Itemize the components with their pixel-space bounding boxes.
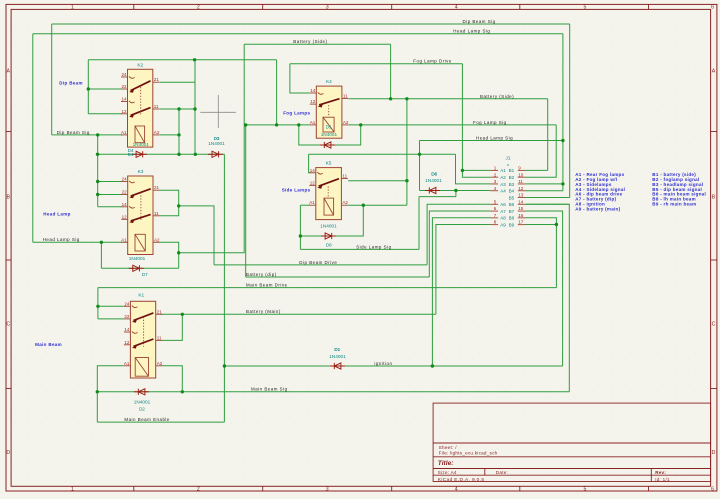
wire K3 pin 14 wire	[98, 206, 122, 208]
wire K2 contact common tie run	[88, 59, 276, 61]
junction D3 anode node	[194, 153, 197, 156]
junction K3 output node	[177, 204, 180, 207]
junction K2 tie node	[193, 58, 196, 61]
wire battery dip rise to J1 A7	[429, 211, 490, 277]
svg-text:21: 21	[154, 185, 160, 190]
relay K4 pin 12 and switch arm	[310, 103, 317, 105]
wire main beam enable left drop	[96, 392, 98, 422]
junction K2 pin 22 node	[87, 87, 90, 90]
wire K5 A1 drop	[299, 205, 301, 249]
svg-text:A1: A1	[500, 168, 506, 173]
svg-text:1N4001: 1N4001	[321, 132, 338, 137]
svg-text:D: D	[712, 450, 716, 456]
wire Side Lamp Sig run	[300, 248, 419, 250]
svg-text:2: 2	[197, 5, 200, 11]
svg-text:C: C	[6, 322, 10, 328]
wire Dip Beam Drive run	[214, 264, 427, 266]
svg-text:File: lights_ecu.kicad_sch: File: lights_ecu.kicad_sch	[439, 451, 498, 456]
relay K3 body	[128, 176, 153, 255]
svg-text:D1: D1	[334, 347, 340, 352]
junction diode line left node	[96, 153, 99, 156]
wire ignition run with D1	[224, 365, 562, 367]
svg-text:11: 11	[342, 174, 347, 179]
wire K1 pins 21-11 tie	[162, 314, 182, 340]
svg-text:A2: A2	[343, 120, 349, 125]
svg-text:D6: D6	[431, 171, 437, 176]
svg-text:12: 12	[518, 186, 524, 191]
connector J1 pin row A5 B5	[509, 193, 526, 201]
junction K1 A1 node	[96, 390, 99, 393]
svg-text:17: 17	[518, 220, 524, 225]
wire ignition rise to J1 A8	[432, 218, 490, 366]
relay K2 body	[128, 69, 153, 147]
wire K2 A2 flyback drop	[178, 109, 180, 154]
svg-text:1: 1	[71, 487, 74, 493]
wire J1 B5 pin 13 wire	[526, 197, 570, 199]
relay K1 pin A1	[124, 365, 130, 367]
junction A4 sidelamp node	[454, 189, 457, 192]
svg-text:B1: B1	[509, 168, 515, 173]
svg-text:11: 11	[343, 94, 348, 99]
svg-text:12: 12	[310, 99, 316, 104]
relay K2 pin 22 and switch arm	[121, 88, 128, 90]
wire riser K5 A2 to battery side line	[406, 99, 408, 205]
wire K5 A2 wire	[348, 204, 407, 206]
wire sidelamp link line	[309, 153, 456, 155]
connector J1 pin row A4 B4	[490, 186, 525, 194]
wire battery main rise to J1 A9	[436, 225, 491, 315]
wire J1 B1 pin 9 wire	[526, 169, 548, 171]
relay K1 pin 11	[156, 339, 163, 341]
svg-text:A3: A3	[500, 182, 506, 187]
junction K3 pin 22 node	[96, 193, 99, 196]
relay K5 pin A2	[341, 204, 348, 206]
svg-text:B6: B6	[509, 202, 515, 207]
svg-text:K5: K5	[326, 160, 332, 166]
border column numbers top	[71, 5, 714, 11]
svg-text:Dip Beam Drive: Dip Beam Drive	[299, 260, 337, 265]
relay K5 coil	[324, 198, 334, 215]
wire K2 pin 12 wire	[88, 113, 122, 115]
svg-text:24: 24	[121, 72, 127, 77]
svg-text:Side Lamps: Side Lamps	[282, 188, 311, 193]
relay K5 body	[316, 168, 342, 220]
wire K2 pin 21 wrap up	[160, 60, 196, 82]
svg-text:Battery (Main): Battery (Main)	[246, 309, 281, 314]
wire K3 A1 drop to D7	[100, 242, 102, 268]
svg-text:Head Lamp Sig: Head Lamp Sig	[453, 29, 490, 34]
relay K3 pin A1	[121, 241, 128, 243]
junction head lamp sig node	[561, 139, 564, 142]
svg-text:1N4001: 1N4001	[134, 400, 151, 405]
svg-text:12: 12	[124, 340, 130, 345]
junction A1 fog node	[461, 169, 464, 172]
svg-text:A1: A1	[121, 130, 127, 135]
svg-text:A2: A2	[154, 237, 160, 242]
relay K1 pin 14	[124, 331, 138, 333]
wire head lamp sig drop to D6	[419, 141, 421, 191]
wire D5 flyback loop	[299, 125, 361, 145]
border row letters right	[712, 68, 716, 456]
svg-text:D3: D3	[214, 136, 220, 141]
svg-text:1N4001: 1N4001	[208, 141, 225, 146]
junction B9 node	[555, 223, 558, 226]
svg-text:2: 2	[197, 487, 200, 493]
svg-text:21: 21	[154, 77, 160, 82]
svg-text:14: 14	[121, 97, 127, 102]
wire K1 left feed drop	[97, 288, 99, 319]
wire Head Lamp Sig top run	[33, 33, 563, 35]
wire Battery (dip) run	[246, 276, 430, 278]
wire K3 pins 21-11 tie	[160, 190, 179, 216]
svg-text:Main Beam: Main Beam	[35, 342, 62, 347]
svg-text:24: 24	[122, 177, 128, 182]
relay K2 actuator link (dashed)	[140, 87, 142, 116]
relay K2 pin 14	[121, 101, 135, 103]
svg-text:21: 21	[157, 309, 163, 314]
svg-text:1N4001: 1N4001	[329, 354, 346, 359]
wire Head Lamp Sig to K3 A1	[33, 241, 122, 243]
svg-text:13: 13	[518, 193, 524, 198]
svg-text:Battery (Side): Battery (Side)	[480, 94, 514, 99]
wire K2 right tie drop to diode line	[194, 60, 196, 155]
relay K4 pin A2	[342, 124, 349, 126]
relay K1 pin 12 and switch arm	[124, 344, 130, 346]
relay K5 actuator link (dashed)	[327, 186, 329, 197]
relay K4 coil	[323, 117, 334, 132]
wire Battery (Main) run from K1 pin 21	[162, 313, 436, 315]
svg-text:14: 14	[518, 199, 524, 204]
wire K2 left tie drop	[87, 60, 89, 114]
diode D7 1N4001	[129, 265, 144, 271]
junction K4 A1 tie node	[275, 123, 278, 126]
wire Dip Beam Sig left drop	[51, 24, 53, 135]
note connector legend left column	[575, 172, 625, 211]
svg-text:22: 22	[122, 190, 128, 195]
graphic crosshair marker	[200, 95, 236, 128]
svg-text:1N4001: 1N4001	[320, 224, 337, 229]
relay K5 pin 11	[341, 178, 348, 180]
svg-text:4: 4	[455, 487, 458, 493]
svg-text:14: 14	[310, 168, 316, 173]
diode D3 1N4001	[208, 151, 223, 157]
wire K2 pin 11 wire	[160, 108, 196, 110]
wire head lamp sig drop to J1 B3 B4	[562, 34, 564, 191]
svg-text:A6: A6	[500, 202, 506, 207]
wire K5 A1 wire	[300, 204, 309, 206]
wire Battery (Side) upper run	[244, 43, 390, 45]
svg-text:1N4001: 1N4001	[425, 178, 442, 183]
junction K2 A2 node	[177, 133, 180, 136]
junction K1 A2 node	[181, 390, 184, 393]
connector J1 pin row A8 B8	[490, 213, 525, 221]
wire battery side wrap down to J1 pin 9	[547, 99, 549, 171]
wire Main Beam Enable run	[97, 421, 224, 423]
border row letters left	[6, 68, 10, 456]
relay K2 pin 12 and switch arm	[121, 113, 128, 115]
svg-text:A2: A2	[342, 200, 348, 205]
relay K2 pin 11	[153, 108, 160, 110]
connector J1 pin row A6 B6	[490, 199, 525, 207]
svg-text:A: A	[712, 68, 716, 74]
wire Head Lamp Sig left drop	[32, 34, 34, 243]
relay K1 pin A2	[156, 365, 163, 367]
svg-text:12: 12	[310, 180, 316, 185]
connector J1 pin row A9 B9	[490, 220, 525, 228]
svg-text:A9: A9	[500, 222, 506, 227]
junction D5 right node	[359, 123, 362, 126]
title block frame	[433, 403, 710, 481]
wire K3 pin 22 wire	[98, 194, 122, 196]
svg-text:A1: A1	[121, 237, 127, 242]
svg-text:10: 10	[518, 172, 524, 177]
relay K1 body	[130, 301, 155, 378]
wire battery dip link to K2 tie line	[276, 60, 278, 125]
relay K4 pin 14	[310, 92, 324, 94]
svg-text:C: C	[712, 322, 716, 328]
wire left column drop K2 A1 to K3 pins	[97, 135, 99, 207]
relay K2 pin 21	[153, 81, 160, 83]
svg-text:D: D	[6, 450, 10, 456]
relay K3 pin 12 and switch arm	[121, 218, 128, 220]
wire D8 flyback loop	[300, 205, 363, 236]
junction K2 A1 node	[96, 133, 99, 136]
svg-text:Dip Beam: Dip Beam	[59, 81, 83, 86]
wire J1 A1 pin 1 wire	[462, 169, 490, 171]
svg-text:Sheet: /: Sheet: /	[439, 445, 458, 450]
wire battery dip riser to K4 A1 line	[245, 125, 247, 277]
svg-text:Fog Lamp Sig: Fog Lamp Sig	[473, 120, 507, 125]
relay K4 body	[316, 86, 342, 138]
svg-text:B9: B9	[509, 222, 515, 227]
svg-text:5: 5	[584, 5, 587, 11]
svg-text:J1: J1	[506, 155, 511, 160]
relay K1 pin 24	[124, 306, 138, 308]
border column numbers bottom	[71, 487, 714, 493]
svg-text:K1: K1	[138, 292, 144, 298]
svg-text:Side Lamp Sig: Side Lamp Sig	[356, 244, 391, 249]
svg-text:16: 16	[518, 213, 524, 218]
relay K3 actuator link (dashed)	[140, 193, 142, 222]
relay K5 pin A1	[309, 204, 316, 206]
diode D2 1N4001	[134, 389, 149, 395]
wire fog lamp drive drop to K4 pin 14	[290, 64, 310, 93]
junction B3 node	[561, 182, 564, 185]
wire A4 node drop	[455, 191, 457, 197]
junction K3 A1 node	[100, 241, 103, 244]
junction D8 left node	[299, 234, 302, 237]
svg-text:A: A	[6, 68, 10, 74]
svg-text:1N4001: 1N4001	[129, 256, 146, 261]
svg-text:B: B	[6, 195, 10, 201]
svg-text:A2: A2	[154, 130, 160, 135]
connector J1 pin row A1 B1	[490, 166, 525, 174]
wire drop to J1 A3 pin 3	[456, 154, 491, 184]
junction battery side node	[389, 97, 392, 100]
svg-text:B5: B5	[509, 195, 515, 200]
wire K5 pin 11 wire	[348, 180, 407, 182]
wire J1 B9 pin 17 wire	[526, 224, 557, 226]
relay K2 pin 24	[121, 76, 135, 78]
svg-text:B9 - rh main beam: B9 - rh main beam	[652, 201, 696, 206]
svg-text:1N4001: 1N4001	[133, 142, 150, 147]
wire K4 A1 wire	[246, 124, 310, 126]
connector J1 pin row A7 B7	[490, 206, 525, 214]
svg-text:Main Beam Sig: Main Beam Sig	[251, 387, 288, 392]
svg-text:A1: A1	[310, 120, 316, 125]
wire fog drive drop to J1 A1 A2	[462, 64, 490, 178]
junction K3 pin 24 node	[96, 180, 99, 183]
svg-text:B3: B3	[509, 182, 515, 187]
svg-text:15: 15	[518, 206, 524, 211]
relay K1 coil	[135, 358, 148, 377]
svg-text:B7: B7	[509, 209, 515, 214]
svg-text:1: 1	[71, 5, 74, 11]
svg-text:14: 14	[310, 88, 316, 93]
junction ignition node	[223, 364, 226, 367]
wire K1 A1 wire and drop	[97, 366, 124, 392]
relay K1 pin 21	[156, 313, 163, 315]
wire J1 B6 pin 14 wire	[526, 203, 570, 205]
wire drop to K5 pin 14	[309, 154, 311, 173]
wire K3 A2 wire and drop	[160, 242, 179, 268]
junction K3 A2 node	[177, 251, 180, 254]
svg-text:Dip Beam Sig: Dip Beam Sig	[463, 19, 496, 24]
wire K1 pin 24 wire	[98, 305, 124, 307]
wire Dip Beam Sig top run	[52, 23, 570, 25]
connector J1 footprint dash	[507, 164, 509, 166]
svg-text:3: 3	[326, 5, 329, 11]
connector J1 pin row A3 B3	[490, 179, 525, 187]
wire Main Beam Sig run with D2	[97, 391, 569, 393]
relay K3 pin A2	[153, 241, 160, 243]
svg-text:A2: A2	[157, 361, 163, 366]
svg-text:Fog Lamps: Fog Lamps	[283, 110, 310, 115]
wire Fog Lamp Sig run from K4 A2	[349, 124, 557, 126]
svg-text:12: 12	[122, 214, 128, 219]
wire Battery (Side) drop to K4 pin 11 line	[390, 44, 392, 99]
svg-text:KiCad E.D.A. 9.0.5: KiCad E.D.A. 9.0.5	[438, 477, 485, 483]
diode D8 1N4001	[321, 233, 336, 239]
wire J1 B4 pin 12 wire	[526, 190, 563, 192]
svg-text:Title:: Title:	[438, 460, 454, 467]
svg-text:4: 4	[455, 5, 458, 11]
svg-text:D4: D4	[128, 152, 134, 157]
wire Dip Beam Sig to K2 A1	[52, 134, 122, 136]
svg-text:11: 11	[154, 211, 159, 216]
junction K1 pin 21 node	[181, 313, 184, 316]
note connector legend right column	[652, 172, 706, 206]
svg-text:6: 6	[711, 487, 714, 493]
relay K2 pin A2	[153, 134, 160, 136]
svg-text:A1: A1	[124, 361, 130, 366]
svg-text:K3: K3	[138, 169, 144, 175]
diode D1 1N4001	[330, 363, 345, 369]
junction K5 A2 node	[362, 204, 365, 207]
wire K2 pin 22 wire	[88, 88, 122, 90]
svg-text:B4: B4	[509, 189, 515, 194]
wire fog lamp sig wrap to J1 B2 pin 10	[526, 125, 557, 177]
relay K5 pin 14	[309, 172, 323, 174]
svg-text:6: 6	[711, 5, 714, 11]
junction K5 riser top node	[405, 97, 408, 100]
wire K3 pin 24 wire	[98, 181, 122, 183]
svg-text:Battery (dip): Battery (dip)	[246, 272, 277, 277]
junction D4 output node	[177, 153, 180, 156]
svg-text:Battery (Side): Battery (Side)	[293, 39, 327, 44]
svg-text:Main Beam Enable: Main Beam Enable	[124, 417, 170, 422]
relay K3 pin 24	[121, 181, 135, 183]
svg-text:12: 12	[121, 109, 127, 114]
wire D6 line to J1 A4 pin 4	[420, 190, 491, 192]
junction battery dip node	[244, 123, 247, 126]
junction D5 left node	[297, 123, 300, 126]
relay K3 pin 22 and switch arm	[121, 194, 128, 196]
junction K5 pin 11 node	[405, 179, 408, 182]
svg-text:Main Beam Drive: Main Beam Drive	[246, 283, 288, 288]
diode D4 1N4001	[132, 151, 147, 157]
svg-text:14: 14	[122, 202, 128, 207]
wire main beam signal wrap to J1 B6 pin 14	[526, 204, 570, 392]
junction K2 pin 11 left node	[177, 107, 180, 110]
svg-text:11: 11	[518, 179, 523, 184]
svg-text:24: 24	[124, 301, 130, 306]
svg-text:ignition: ignition	[374, 361, 392, 366]
svg-text:14: 14	[124, 327, 130, 332]
relay K4 pin A1	[310, 124, 317, 126]
relay K2 pin A1	[121, 134, 128, 136]
wire K3 output branch to dip beam drive	[179, 206, 214, 265]
relay K2 coil	[135, 126, 145, 143]
wire dip beam sig drop to J1 B5 pin 13	[569, 24, 571, 198]
junction A8 ignition node	[431, 364, 434, 367]
wire K2 A2 wire	[160, 134, 180, 136]
svg-text:A1: A1	[309, 200, 315, 205]
wire J1 B8 pin 16 wrap	[526, 218, 557, 288]
wire side lamp sig riser	[418, 197, 420, 250]
wire ignition wrap up to J1 B7 pin 15	[526, 211, 563, 366]
svg-text:K2: K2	[137, 62, 143, 68]
svg-text:Head Lamp: Head Lamp	[43, 211, 70, 216]
diode D6 1N4001	[425, 187, 440, 193]
relay K4 pin 11	[342, 98, 349, 100]
wire Head Lamp Sig mid run	[420, 140, 563, 142]
wire side lamp sig upper link	[419, 196, 456, 198]
svg-text:A2: A2	[500, 175, 506, 180]
svg-text:D7: D7	[142, 272, 148, 277]
svg-text:22: 22	[121, 84, 127, 89]
svg-text:Fog Lamp Drive: Fog Lamp Drive	[413, 59, 452, 64]
svg-text:B2: B2	[509, 175, 515, 180]
svg-text:3: 3	[326, 487, 329, 493]
svg-text:Head Lamp Sig: Head Lamp Sig	[43, 237, 80, 242]
svg-text:Id: 1/1: Id: 1/1	[655, 477, 670, 482]
junction sidelamp link node	[418, 153, 421, 156]
wire K1 pin 22 wire	[98, 318, 124, 320]
svg-text:Date:: Date:	[496, 470, 508, 475]
wire Main Beam Drive run	[98, 287, 557, 289]
svg-text:A9 - battery (main): A9 - battery (main)	[575, 206, 620, 211]
svg-text:5: 5	[584, 487, 587, 493]
svg-text:D2: D2	[139, 406, 145, 411]
diode D5 1N4001	[320, 142, 335, 148]
wire D3 output drop to ignition and enable	[223, 154, 225, 422]
relay K3 pin 21	[153, 189, 160, 191]
connector J1 pin row A2 B2	[490, 172, 525, 180]
svg-text:A4: A4	[500, 189, 506, 194]
wire J1 B3 pin 11 wire	[526, 183, 563, 185]
svg-text:Head Lamp Sig: Head Lamp Sig	[476, 136, 513, 141]
